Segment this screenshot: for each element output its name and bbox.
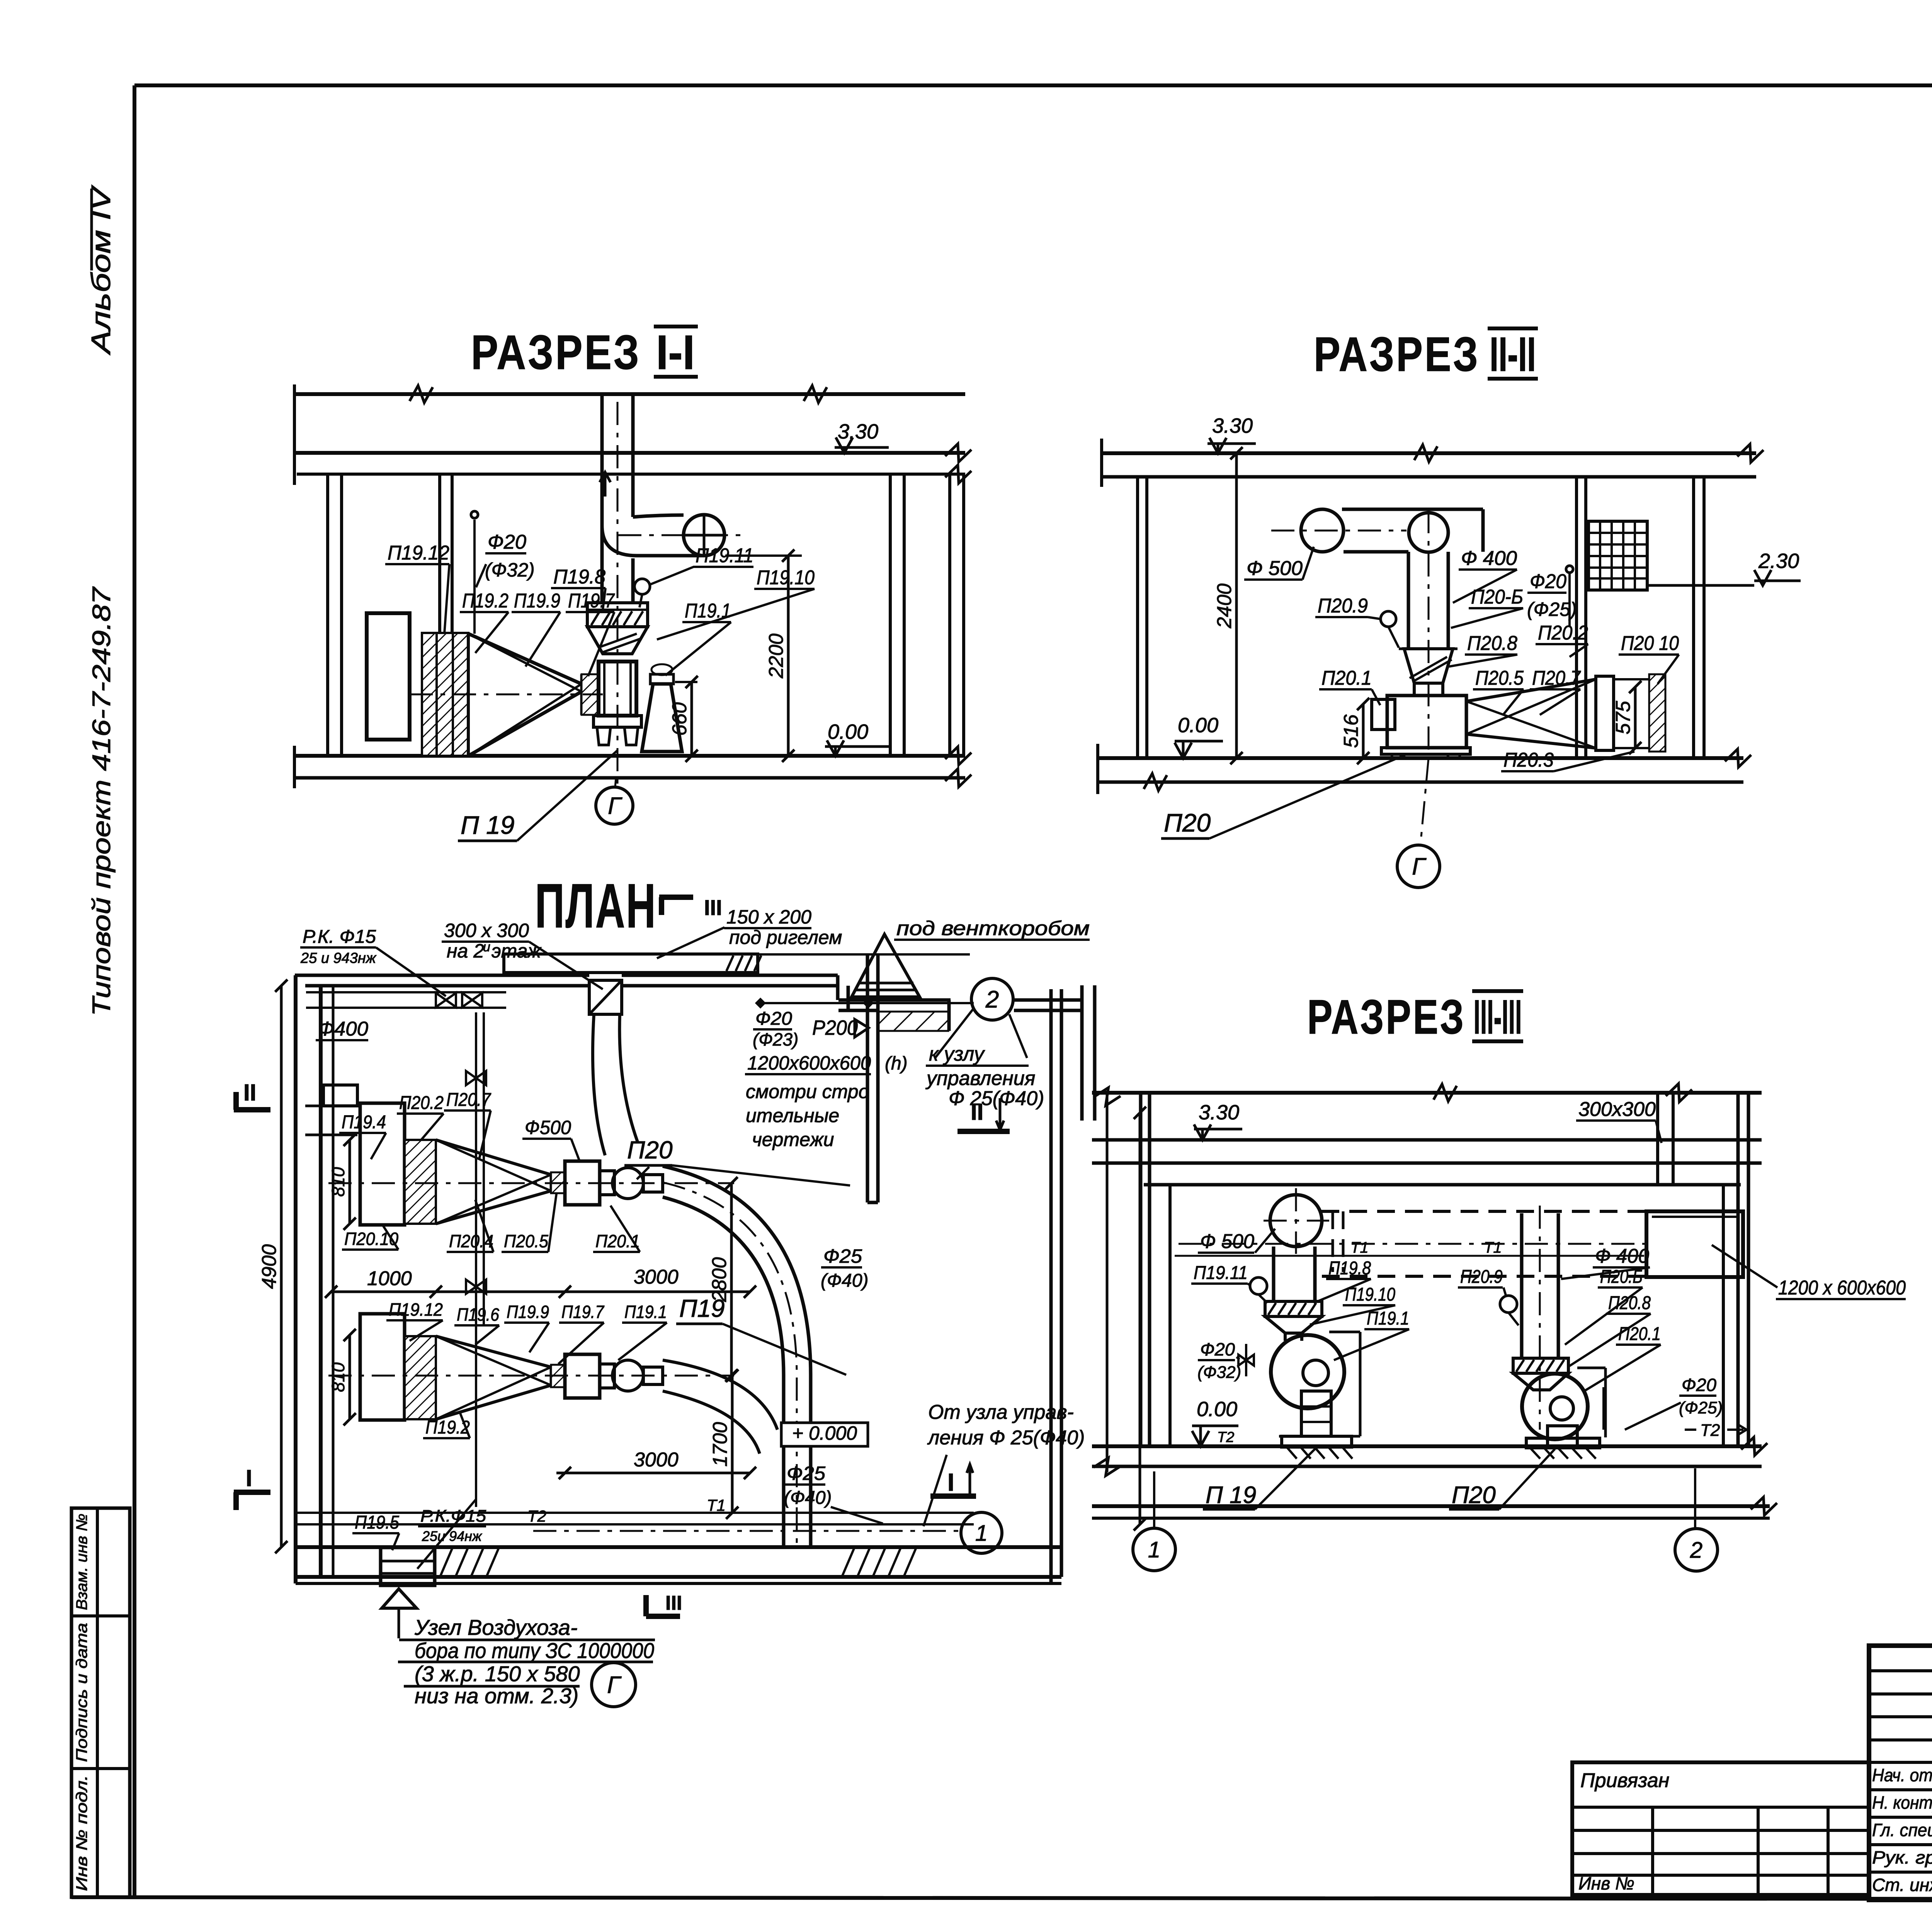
svg-text:бора по типу ЗС 1000000: бора по типу ЗС 1000000 <box>415 1638 654 1663</box>
section I-I columns <box>326 474 329 756</box>
svg-text:III: III <box>704 895 722 920</box>
section II-II dim 516 <box>1362 704 1365 758</box>
svg-text:П20.5: П20.5 <box>1475 667 1524 689</box>
section II-II louver grille <box>1588 521 1647 590</box>
svg-text:II: II <box>243 1080 256 1105</box>
svg-text:25 и 943нж: 25 и 943нж <box>300 950 377 966</box>
svg-text:660: 660 <box>668 702 691 736</box>
plan top pipes <box>306 991 506 993</box>
svg-text:П20.7: П20.7 <box>446 1090 492 1110</box>
section II-II transition P20.8 <box>1404 649 1453 683</box>
axis circle G II-II <box>1397 845 1440 888</box>
svg-text:1200 х 600х600: 1200 х 600х600 <box>1778 1277 1906 1299</box>
plan ventkorob hatch <box>878 1012 948 1031</box>
section III-III P19 riser <box>1272 1247 1276 1301</box>
plan fan axes <box>328 1182 734 1184</box>
svg-text:Ф25: Ф25 <box>823 1245 862 1267</box>
label T2 right III <box>1685 1429 1696 1431</box>
left margin table <box>71 1508 130 1897</box>
svg-text:ления Ф 25(Ф40): ления Ф 25(Ф40) <box>927 1427 1085 1449</box>
svg-text:(Ф23): (Ф23) <box>753 1029 798 1049</box>
plan duct to 2nd floor <box>593 1014 605 1155</box>
svg-text:Ф20: Ф20 <box>1530 570 1566 593</box>
section II-II fan P20 <box>1413 683 1416 696</box>
svg-text:П19.12: П19.12 <box>389 1299 443 1320</box>
svg-text:(Ф25): (Ф25) <box>1679 1398 1723 1417</box>
section III-III 300x300 shaft <box>1656 1093 1659 1185</box>
plan walls <box>294 975 298 1583</box>
svg-text:П19.6: П19.6 <box>457 1304 499 1325</box>
svg-text:П20.1: П20.1 <box>1618 1324 1661 1344</box>
section III-III P20 pedestal <box>1548 1426 1577 1446</box>
svg-text:Ф400: Ф400 <box>318 1018 368 1040</box>
svg-text:РАЗРЕЗ: РАЗРЕЗ <box>1314 328 1480 381</box>
section I-I floor <box>294 754 965 758</box>
plan lower confuser <box>436 1336 551 1367</box>
svg-text:Т2: Т2 <box>527 1507 546 1525</box>
svg-text:П 19: П 19 <box>461 811 515 839</box>
plan dim 1000-3000 chain <box>331 1291 750 1293</box>
svg-text:П20.Б: П20.Б <box>1600 1267 1643 1287</box>
section II-II dim 575 <box>1634 687 1637 748</box>
svg-text:(3 ж.р. 150 х 580: (3 ж.р. 150 х 580 <box>415 1662 580 1686</box>
section III-III walls <box>1139 1093 1143 1446</box>
svg-text:Гл. спец.: Гл. спец. <box>1872 1820 1932 1840</box>
svg-text:II-II: II-II <box>1490 328 1536 381</box>
svg-text:П20-Б: П20-Б <box>1471 586 1523 608</box>
plan upper confuser <box>436 1140 551 1175</box>
svg-text:П19.10: П19.10 <box>1345 1284 1395 1305</box>
svg-text:От узла управ-: От узла управ- <box>928 1401 1074 1423</box>
plan upper filter strip <box>405 1140 436 1224</box>
svg-text:П19: П19 <box>679 1294 725 1322</box>
svg-text:III: III <box>665 1592 682 1614</box>
svg-text:2200: 2200 <box>765 633 787 679</box>
svg-text:3.30: 3.30 <box>838 420 878 443</box>
plan dim 810 lower <box>349 1335 351 1419</box>
svg-text:2400: 2400 <box>1213 583 1236 629</box>
svg-text:П19.9: П19.9 <box>514 590 560 612</box>
svg-text:Ф 400: Ф 400 <box>1595 1245 1649 1267</box>
section I-I filter box P19.8 <box>587 603 648 627</box>
svg-text:300х300: 300х300 <box>1578 1098 1656 1121</box>
svg-text:Ф20: Ф20 <box>488 531 526 553</box>
section II-II dim 2400 <box>1235 453 1238 758</box>
svg-text:чертежи: чертежи <box>752 1129 834 1150</box>
svg-text:Ф25: Ф25 <box>787 1463 825 1484</box>
section III-III P20 filter <box>1513 1358 1568 1373</box>
svg-text:Типовой проект 416-7-249.87: Типовой проект 416-7-249.87 <box>87 586 116 1016</box>
svg-text:I-I: I-I <box>656 326 695 379</box>
svg-text:Нач. отд: Нач. отд <box>1872 1765 1932 1785</box>
plan lower louver box <box>360 1314 405 1420</box>
axis circle G section I-I <box>596 787 633 824</box>
section II-II riser f400 <box>1407 552 1410 649</box>
svg-text:РАЗРЕЗ: РАЗРЕЗ <box>471 326 641 379</box>
svg-text:П20.9: П20.9 <box>1460 1267 1503 1287</box>
section I-I roof <box>294 392 965 396</box>
plan lower filter strip <box>405 1336 436 1419</box>
svg-text:516: 516 <box>1340 714 1362 748</box>
svg-text:Рук. гр.: Рук. гр. <box>1872 1847 1932 1867</box>
svg-text:Т2: Т2 <box>1700 1421 1720 1440</box>
svg-text:III-III: III-III <box>1474 990 1522 1044</box>
svg-text:П19.5: П19.5 <box>355 1512 399 1533</box>
svg-text:П19.7: П19.7 <box>561 1302 604 1322</box>
section III-III P19 filter <box>1265 1301 1322 1316</box>
svg-text:Т1: Т1 <box>1350 1239 1369 1256</box>
plan lower fan P19 <box>565 1354 600 1398</box>
svg-text:(Ф32): (Ф32) <box>485 559 535 581</box>
svg-text:П19.2: П19.2 <box>462 590 509 612</box>
section III-III P19 fan <box>1284 1333 1287 1341</box>
svg-text:300 х 300: 300 х 300 <box>444 920 529 941</box>
svg-text:П19.8: П19.8 <box>1328 1258 1371 1279</box>
svg-text:Ф 500: Ф 500 <box>1247 557 1303 580</box>
section III-III P20 fan <box>1522 1374 1588 1439</box>
plan bottom pipes T1 T2 <box>296 1512 974 1514</box>
svg-text:0.00: 0.00 <box>1178 714 1218 737</box>
section I-I centerlines <box>617 402 619 786</box>
plan wall hatch <box>440 1549 452 1576</box>
plan upper fan P20 <box>565 1161 600 1205</box>
svg-text:П20.1: П20.1 <box>1321 667 1372 689</box>
privyazan block <box>1572 1762 1869 1895</box>
axis circle 2 III <box>1675 1529 1718 1571</box>
section I-I wall opening <box>367 613 410 740</box>
svg-text:П20.2: П20.2 <box>399 1093 444 1113</box>
svg-text:575: 575 <box>1612 701 1634 735</box>
svg-text:Т1: Т1 <box>707 1496 726 1514</box>
section II-II right frames <box>1596 676 1614 750</box>
svg-text:П19.1: П19.1 <box>1367 1308 1409 1329</box>
plan intake box P19.5 <box>381 1548 435 1585</box>
svg-text:П20.3: П20.3 <box>1503 749 1554 771</box>
svg-text:(Ф40): (Ф40) <box>784 1488 832 1508</box>
plan upper flexible <box>551 1172 565 1193</box>
svg-text:Ф 500: Ф 500 <box>1200 1230 1254 1253</box>
section III-III left dim line <box>1106 1092 1109 1472</box>
plan dim 2800 <box>730 1183 733 1376</box>
svg-text:П19.10: П19.10 <box>757 566 815 589</box>
svg-text:и: и <box>483 940 490 954</box>
svg-text:П19.4: П19.4 <box>342 1112 386 1133</box>
svg-text:(Ф32): (Ф32) <box>1197 1363 1241 1382</box>
svg-text:П20.8: П20.8 <box>1608 1293 1651 1313</box>
section II-II roof <box>1101 451 1756 455</box>
svg-text:1700: 1700 <box>709 1422 731 1467</box>
title block outer <box>1869 1646 1932 1900</box>
svg-text:2: 2 <box>985 986 999 1013</box>
svg-text:0.00: 0.00 <box>828 720 868 743</box>
plan dim 810 upper <box>349 1140 351 1224</box>
svg-text:Привязан: Привязан <box>1580 1769 1669 1792</box>
svg-text:150 х 200: 150 х 200 <box>726 906 811 928</box>
section I-I dim 660 <box>675 681 697 683</box>
svg-text:810: 810 <box>328 1167 348 1197</box>
svg-text:этаж: этаж <box>492 940 542 962</box>
svg-text:П19.9: П19.9 <box>507 1302 549 1322</box>
plan f400 sleeve <box>323 1085 357 1106</box>
plan +0.000 box <box>781 1423 868 1446</box>
svg-text:П19.1: П19.1 <box>624 1302 667 1322</box>
section III-III P19 f500 circle <box>1270 1195 1322 1247</box>
section III-III P19 motor pedestal <box>1301 1391 1331 1436</box>
svg-text:1200х600х600: 1200х600х600 <box>747 1052 871 1074</box>
svg-text:Взам. инв №: Взам. инв № <box>73 1514 90 1610</box>
svg-text:2.30: 2.30 <box>1758 549 1799 573</box>
plan intake arrow <box>382 1589 417 1608</box>
section I-I funnel P19.10 <box>587 627 648 654</box>
svg-text:под ригелем: под ригелем <box>729 927 842 948</box>
plan dim 1700 <box>731 1376 734 1513</box>
plan square duct 300x300 <box>589 980 622 1014</box>
plan section mark III top <box>659 895 693 900</box>
svg-text:Г: Г <box>607 1672 622 1699</box>
section I-I flexible insert P19.7 <box>582 674 599 715</box>
svg-text:(h): (h) <box>885 1053 908 1074</box>
svg-text:+ 0.000: + 0.000 <box>792 1422 857 1444</box>
section I-I drain pipe f20 <box>473 520 476 634</box>
svg-text:Т1: Т1 <box>1484 1239 1502 1256</box>
svg-text:Ф 25(Ф40): Ф 25(Ф40) <box>949 1087 1044 1110</box>
section III-III T1 line <box>1175 1255 1644 1257</box>
plan duct under beam 150x200 <box>504 954 758 973</box>
svg-text:Р.К. Ф15: Р.К. Ф15 <box>303 927 376 947</box>
svg-text:Подпись и дата: Подпись и дата <box>73 1623 90 1762</box>
svg-text:3.30: 3.30 <box>1212 414 1253 437</box>
section I-I confuser P19.9 <box>468 634 582 684</box>
svg-text:смотри стро: смотри стро <box>746 1081 869 1102</box>
svg-text:1: 1 <box>1148 1537 1160 1562</box>
svg-text:П19.12: П19.12 <box>388 542 449 564</box>
svg-text:Ф500: Ф500 <box>525 1117 571 1138</box>
svg-text:П20.8: П20.8 <box>1467 632 1517 655</box>
svg-text:I: I <box>246 1465 252 1491</box>
section I-I discharge duct <box>600 394 604 603</box>
svg-text:I: I <box>947 1468 954 1496</box>
svg-text:П20 10: П20 10 <box>1621 632 1679 655</box>
section III-III floor <box>1092 1444 1762 1448</box>
section I-I filter strip P19.12 <box>422 633 468 756</box>
svg-text:под венткоробом: под венткоробом <box>896 917 1090 940</box>
axis circle 1 III <box>1133 1528 1175 1571</box>
plan duct curve A f500 <box>663 1166 811 1546</box>
plan duct drop 1200x600x600 <box>866 954 869 1202</box>
section III-III P20 riser <box>1520 1213 1524 1358</box>
svg-text:П19.8: П19.8 <box>553 566 605 588</box>
plan lower flexible <box>551 1365 565 1387</box>
plan duct curve B <box>663 1360 777 1430</box>
svg-text:П19.7: П19.7 <box>568 590 615 612</box>
plan axis 1 circle <box>961 1512 1002 1553</box>
plan vertical pipes <box>475 1012 477 1507</box>
plan corridor pipe <box>757 1002 974 1004</box>
svg-text:управления: управления <box>925 1067 1035 1090</box>
svg-text:Ф20: Ф20 <box>1200 1339 1235 1359</box>
title block name rows <box>1869 1788 1932 1791</box>
svg-text:П19.1: П19.1 <box>685 600 731 622</box>
svg-text:3.30: 3.30 <box>1199 1101 1239 1124</box>
title block upper rows <box>1869 1669 1932 1672</box>
svg-text:810: 810 <box>328 1362 348 1392</box>
svg-text:Г: Г <box>1412 854 1427 880</box>
plan corridor top line <box>758 953 970 956</box>
section II-II floor <box>1097 756 1743 760</box>
svg-text:3000: 3000 <box>634 1449 679 1471</box>
section III-III P19 funnel <box>1265 1316 1322 1333</box>
section II-II diffuser cone <box>1466 679 1596 701</box>
svg-text:Ф20: Ф20 <box>755 1009 792 1029</box>
plan upper louver box <box>360 1103 405 1225</box>
svg-text:П19.11: П19.11 <box>696 544 753 567</box>
svg-text:ПЛАН: ПЛАН <box>535 871 657 941</box>
section III-III P19 base <box>1282 1436 1352 1447</box>
svg-text:П20.9: П20.9 <box>1318 595 1368 617</box>
svg-text:(Ф40): (Ф40) <box>821 1270 869 1291</box>
section I-I dim 2200 <box>725 554 802 557</box>
section III-III P20 frame <box>1604 1368 1607 1437</box>
plan axis G circle <box>592 1663 636 1707</box>
svg-text:Ф 400: Ф 400 <box>1461 547 1517 570</box>
section I-I duct elbow and cap <box>602 526 704 556</box>
section III-III lower slab <box>1092 1504 1770 1508</box>
section III-III big duct 1200x600x600 <box>1646 1211 1743 1277</box>
plan ventkorob support triangle <box>852 934 920 997</box>
plan dim 4900 <box>280 986 283 1547</box>
svg-text:П20.5: П20.5 <box>504 1231 548 1251</box>
svg-text:25и 94нж: 25и 94нж <box>422 1528 483 1544</box>
svg-text:П20.2: П20.2 <box>1538 622 1588 644</box>
svg-text:0.00: 0.00 <box>1197 1398 1237 1421</box>
svg-text:1: 1 <box>975 1520 988 1546</box>
svg-text:3000: 3000 <box>634 1266 679 1288</box>
plan dim 3000 bottom <box>556 1472 750 1475</box>
svg-text:П20: П20 <box>627 1136 673 1164</box>
plan right long line <box>1139 1113 1141 1524</box>
svg-text:Р.К.Ф15: Р.К.Ф15 <box>420 1507 486 1526</box>
svg-text:2: 2 <box>1690 1537 1702 1563</box>
section III-III P19 frame <box>1359 1332 1362 1436</box>
section II-II columns <box>1136 477 1139 758</box>
section II-II f500 duct circle <box>1301 509 1344 552</box>
svg-text:П20: П20 <box>1164 808 1211 837</box>
svg-text:Т2: Т2 <box>1217 1429 1234 1446</box>
svg-text:к узлу: к узлу <box>929 1043 985 1065</box>
svg-text:Узел Воздухоза-: Узел Воздухоза- <box>414 1615 578 1639</box>
svg-text:П20.7: П20.7 <box>1532 667 1581 689</box>
section III-III roof <box>1092 1091 1762 1095</box>
svg-text:Инв № подл.: Инв № подл. <box>73 1775 90 1891</box>
section III-III P20 funnel <box>1513 1373 1568 1390</box>
svg-text:низ на отм. 2.3): низ на отм. 2.3) <box>415 1684 578 1708</box>
plan corridor top right <box>838 998 951 1002</box>
svg-text:4900: 4900 <box>258 1244 281 1289</box>
plan section mark III bottom <box>643 1595 649 1616</box>
svg-text:Инв №: Инв № <box>1578 1873 1634 1893</box>
svg-text:П19.11: П19.11 <box>1194 1263 1248 1283</box>
svg-text:РАЗРЕЗ: РАЗРЕЗ <box>1307 990 1466 1044</box>
sheet frame <box>133 85 136 1897</box>
svg-text:Н. контр: Н. контр <box>1872 1793 1932 1813</box>
section I-I cone P19.1 <box>642 684 682 752</box>
section III-III dashed duct run <box>1321 1210 1646 1213</box>
svg-text:ительные: ительные <box>746 1105 839 1126</box>
svg-text:Р200: Р200 <box>812 1016 858 1039</box>
svg-text:на 2: на 2 <box>447 940 484 962</box>
svg-text:Ф20: Ф20 <box>1682 1375 1716 1395</box>
section III-III dashed drop <box>1332 1211 1334 1272</box>
svg-text:Ст. инж: Ст. инж <box>1872 1875 1932 1895</box>
section I-I fan P19 <box>599 662 636 716</box>
plan axis 2 circle <box>971 978 1013 1020</box>
svg-text:П20: П20 <box>1452 1482 1496 1509</box>
svg-text:1000: 1000 <box>367 1267 412 1290</box>
svg-text:Г: Г <box>608 793 622 820</box>
